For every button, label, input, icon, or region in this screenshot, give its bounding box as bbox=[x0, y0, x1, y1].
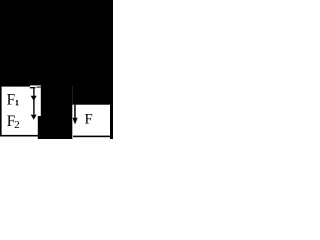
svg-text:2: 2 bbox=[14, 119, 19, 131]
svg-text:F: F bbox=[7, 92, 16, 109]
svg-text:F: F bbox=[85, 112, 93, 128]
